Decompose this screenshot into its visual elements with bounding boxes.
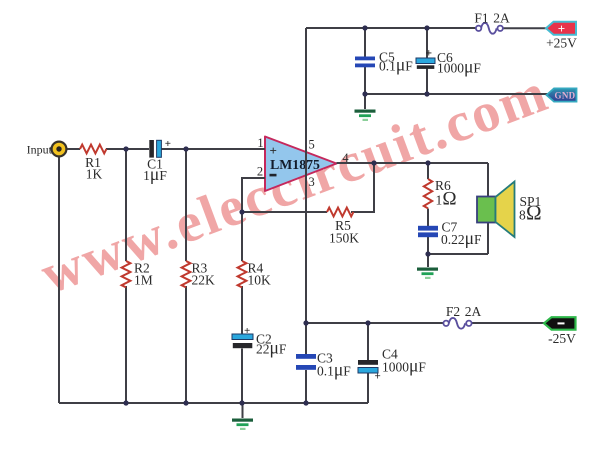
resistor R5: [327, 208, 359, 246]
svg-text:F2: F2: [446, 304, 460, 319]
watermark www.eleccircuit.com: [33, 61, 557, 306]
terminal GND: [547, 88, 577, 101]
capacitor C6: [416, 48, 481, 77]
capacitor C4: [358, 347, 426, 383]
svg-text:4: 4: [342, 151, 349, 165]
ground (bottom rail): [232, 419, 253, 431]
svg-text:Input: Input: [27, 143, 53, 157]
wire: C4 branch: [367, 323, 369, 403]
wire: R3 branch: [185, 149, 187, 403]
ground (below C7): [417, 268, 438, 280]
pin 5 label: [309, 138, 315, 152]
svg-text:3: 3: [309, 175, 315, 189]
op-amp U1 LM1875: [265, 137, 337, 192]
capacitor C5: [355, 50, 413, 75]
capacitor C3: [296, 351, 351, 380]
resistor R1: [80, 145, 106, 182]
wire: GND rail: [365, 94, 548, 109]
svg-text:2A: 2A: [465, 304, 482, 319]
wire: output line: [337, 162, 489, 164]
svg-text:150K: 150K: [329, 231, 359, 246]
fuse F2: [443, 304, 481, 329]
svg-text:10K: 10K: [248, 273, 272, 288]
terminal -25V: [544, 317, 576, 346]
wire: bottom ground rail: [59, 402, 368, 404]
pin 4 label: [342, 151, 349, 165]
input jack J1: [27, 142, 67, 157]
svg-text:22K: 22K: [192, 273, 216, 288]
svg-text:1K: 1K: [86, 167, 103, 182]
wire: input jack ground drop: [58, 157, 60, 404]
wire: main positive vertical x=306 (pin5 to pin3 to neg rail): [305, 28, 307, 403]
capacitor C1: [143, 138, 171, 184]
svg-text:+25V: +25V: [546, 36, 577, 51]
capacitor C2: [232, 325, 287, 358]
wire: -25V rail: [306, 322, 544, 324]
svg-text:+: +: [165, 138, 171, 150]
wire: R2 branch: [125, 149, 127, 403]
svg-text:+: +: [270, 143, 277, 158]
svg-text:1Ω: 1Ω: [436, 189, 457, 210]
svg-text:1M: 1M: [134, 273, 153, 288]
wire: speaker branch: [428, 163, 488, 254]
pin 2 label: [257, 165, 263, 179]
svg-text:LM1875: LM1875: [270, 157, 320, 172]
wire: input line to pin1: [66, 148, 265, 150]
pin 1 label: [257, 136, 263, 150]
svg-text:1: 1: [257, 136, 263, 150]
resistor R2: [122, 261, 153, 288]
svg-text:5: 5: [309, 138, 315, 152]
svg-text:+: +: [558, 21, 565, 36]
terminal +25V: [546, 21, 577, 50]
svg-text:F1: F1: [474, 11, 488, 26]
resistor R3: [182, 261, 215, 288]
speaker SP1: [477, 182, 542, 238]
svg-text:-25V: -25V: [548, 331, 576, 346]
capacitor C7: [418, 220, 482, 249]
wire: C6 branch: [426, 28, 428, 94]
wire: +25V top rail: [306, 27, 546, 29]
resistor R4: [238, 261, 271, 288]
svg-text:+: +: [375, 371, 381, 383]
ground (near C5/C6): [355, 110, 376, 122]
wire: R4 C2 branch: [241, 212, 244, 418]
svg-text:2: 2: [257, 165, 263, 179]
resistor R6: [424, 178, 457, 210]
pin 3 label: [309, 175, 315, 189]
svg-text:2A: 2A: [493, 11, 510, 26]
wire: R6 C7 branch: [427, 163, 429, 267]
wire: feedback line through R5 up to output: [242, 163, 374, 212]
wire: C5 branch: [364, 28, 366, 94]
fuse F1: [474, 11, 510, 34]
svg-text:GND: GND: [555, 91, 576, 101]
wire: pin2 to feedback node: [242, 178, 265, 212]
